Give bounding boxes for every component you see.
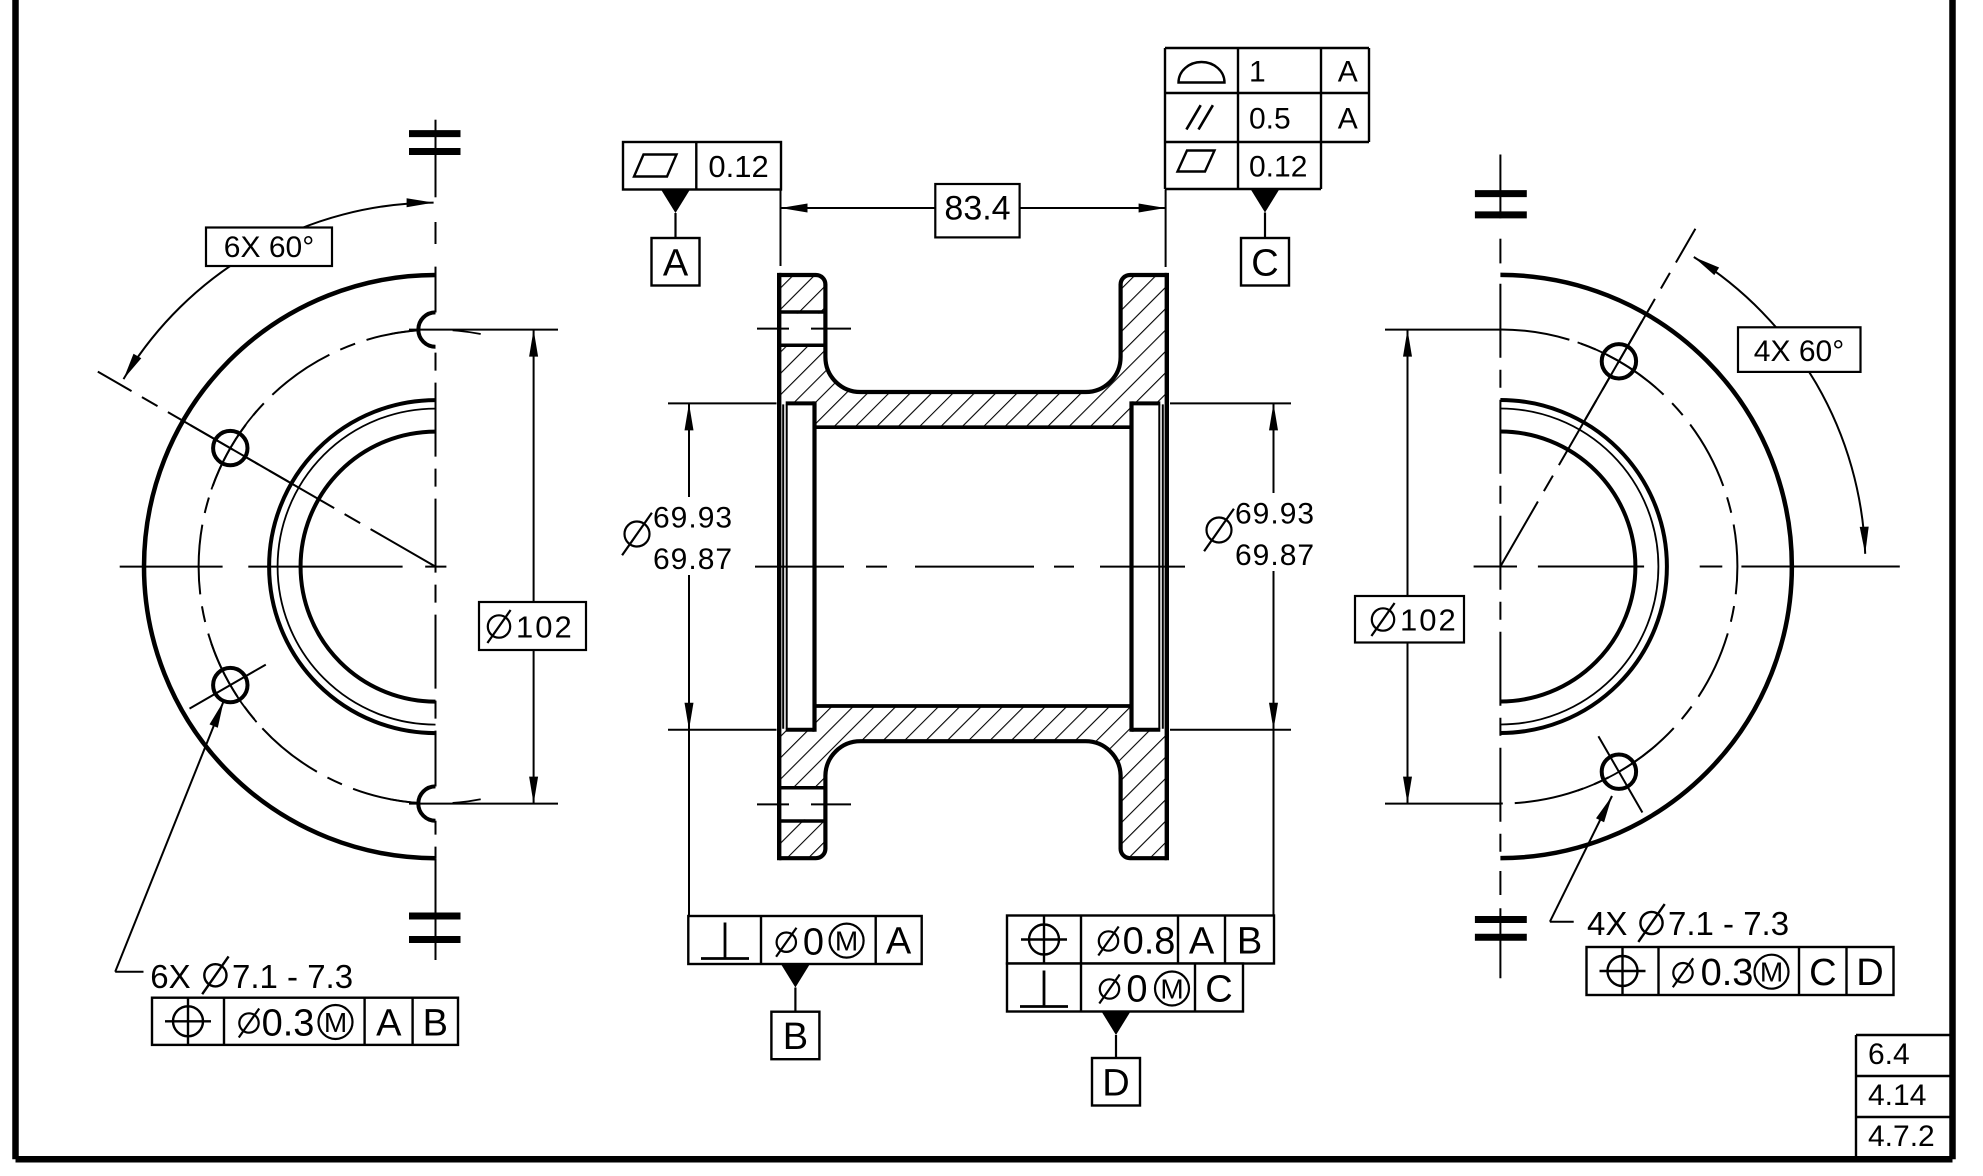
svg-text:C: C [1251,243,1278,285]
svg-text:69.87: 69.87 [653,543,733,576]
svg-text:D: D [1102,1063,1129,1105]
svg-text:102: 102 [1400,603,1458,638]
svg-text:6X: 6X [150,958,190,995]
svg-text:M: M [1160,974,1183,1005]
svg-text:69.87: 69.87 [1235,539,1315,572]
svg-text:4.7.2: 4.7.2 [1868,1120,1935,1153]
svg-text:0.5: 0.5 [1249,103,1291,136]
svg-text:B: B [1237,921,1262,963]
svg-text:7.1 - 7.3: 7.1 - 7.3 [1668,905,1789,942]
svg-text:83.4: 83.4 [944,190,1010,228]
svg-text:D: D [1856,952,1883,994]
svg-text:6X 60°: 6X 60° [224,231,314,264]
svg-text:1: 1 [1249,56,1266,89]
svg-text:M: M [835,926,858,957]
svg-text:0.3: 0.3 [1701,952,1754,994]
svg-text:102: 102 [516,610,574,645]
svg-text:A: A [1338,56,1358,89]
svg-text:7.1 - 7.3: 7.1 - 7.3 [232,958,353,995]
svg-text:0: 0 [803,922,824,964]
svg-text:0: 0 [1126,969,1147,1011]
svg-text:4.14: 4.14 [1868,1079,1926,1112]
svg-text:A: A [1189,921,1215,963]
svg-text:0.3: 0.3 [262,1003,315,1045]
svg-text:69.93: 69.93 [653,502,733,535]
svg-text:4X: 4X [1587,905,1627,942]
svg-text:A: A [376,1003,402,1045]
svg-text:M: M [324,1007,347,1038]
svg-text:0.8: 0.8 [1123,921,1176,963]
svg-text:69.93: 69.93 [1235,498,1315,531]
svg-text:M: M [1760,957,1783,988]
svg-text:C: C [1809,952,1836,994]
svg-text:C: C [1205,969,1232,1011]
svg-text:B: B [783,1016,808,1058]
svg-text:0.12: 0.12 [708,149,768,184]
svg-text:0.12: 0.12 [1249,151,1307,184]
svg-text:B: B [423,1003,448,1045]
svg-text:4X 60°: 4X 60° [1754,335,1844,368]
svg-text:A: A [886,921,912,963]
svg-text:A: A [1338,103,1358,136]
svg-text:A: A [663,243,689,285]
svg-text:6.4: 6.4 [1868,1038,1910,1071]
